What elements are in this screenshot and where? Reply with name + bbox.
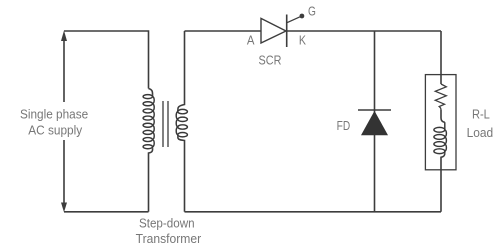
svg-text:R-L: R-L [472, 107, 490, 122]
svg-text:K: K [299, 33, 306, 48]
svg-text:AC supply: AC supply [28, 122, 82, 137]
svg-text:G: G [308, 4, 316, 19]
svg-text:Step-down: Step-down [139, 216, 195, 231]
svg-text:SCR: SCR [259, 53, 282, 68]
svg-text:FD: FD [337, 118, 351, 133]
svg-text:Transformer: Transformer [136, 231, 202, 246]
svg-text:A: A [247, 32, 255, 47]
svg-text:Single phase: Single phase [20, 107, 88, 122]
svg-text:Load: Load [467, 125, 494, 140]
